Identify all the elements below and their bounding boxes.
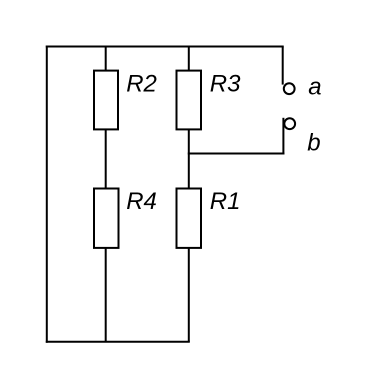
resistor R1	[177, 189, 202, 248]
resistor R2	[94, 71, 118, 130]
wire drop to terminal a	[282, 47, 284, 85]
wire right column through R3 and R1	[188, 47, 190, 342]
wire drop from terminal b	[282, 118, 284, 155]
svg-text:b: b	[307, 130, 320, 157]
wire left rail	[46, 46, 48, 343]
svg-text:a: a	[308, 74, 321, 101]
svg-text:R1: R1	[210, 188, 241, 215]
wire top bus from left rail to terminal-a drop	[46, 46, 284, 48]
svg-text:R2: R2	[126, 70, 157, 97]
resistor R3	[177, 71, 202, 130]
svg-text:R3: R3	[210, 70, 241, 97]
terminal a	[284, 83, 295, 94]
terminal b	[284, 118, 295, 129]
wire bottom bus	[46, 341, 190, 343]
resistor R4	[94, 189, 119, 248]
wire middle column through R2 and R4	[105, 47, 107, 342]
svg-text:R4: R4	[126, 188, 157, 215]
wire branch from node between R3 and R1 to terminal b	[188, 153, 285, 155]
